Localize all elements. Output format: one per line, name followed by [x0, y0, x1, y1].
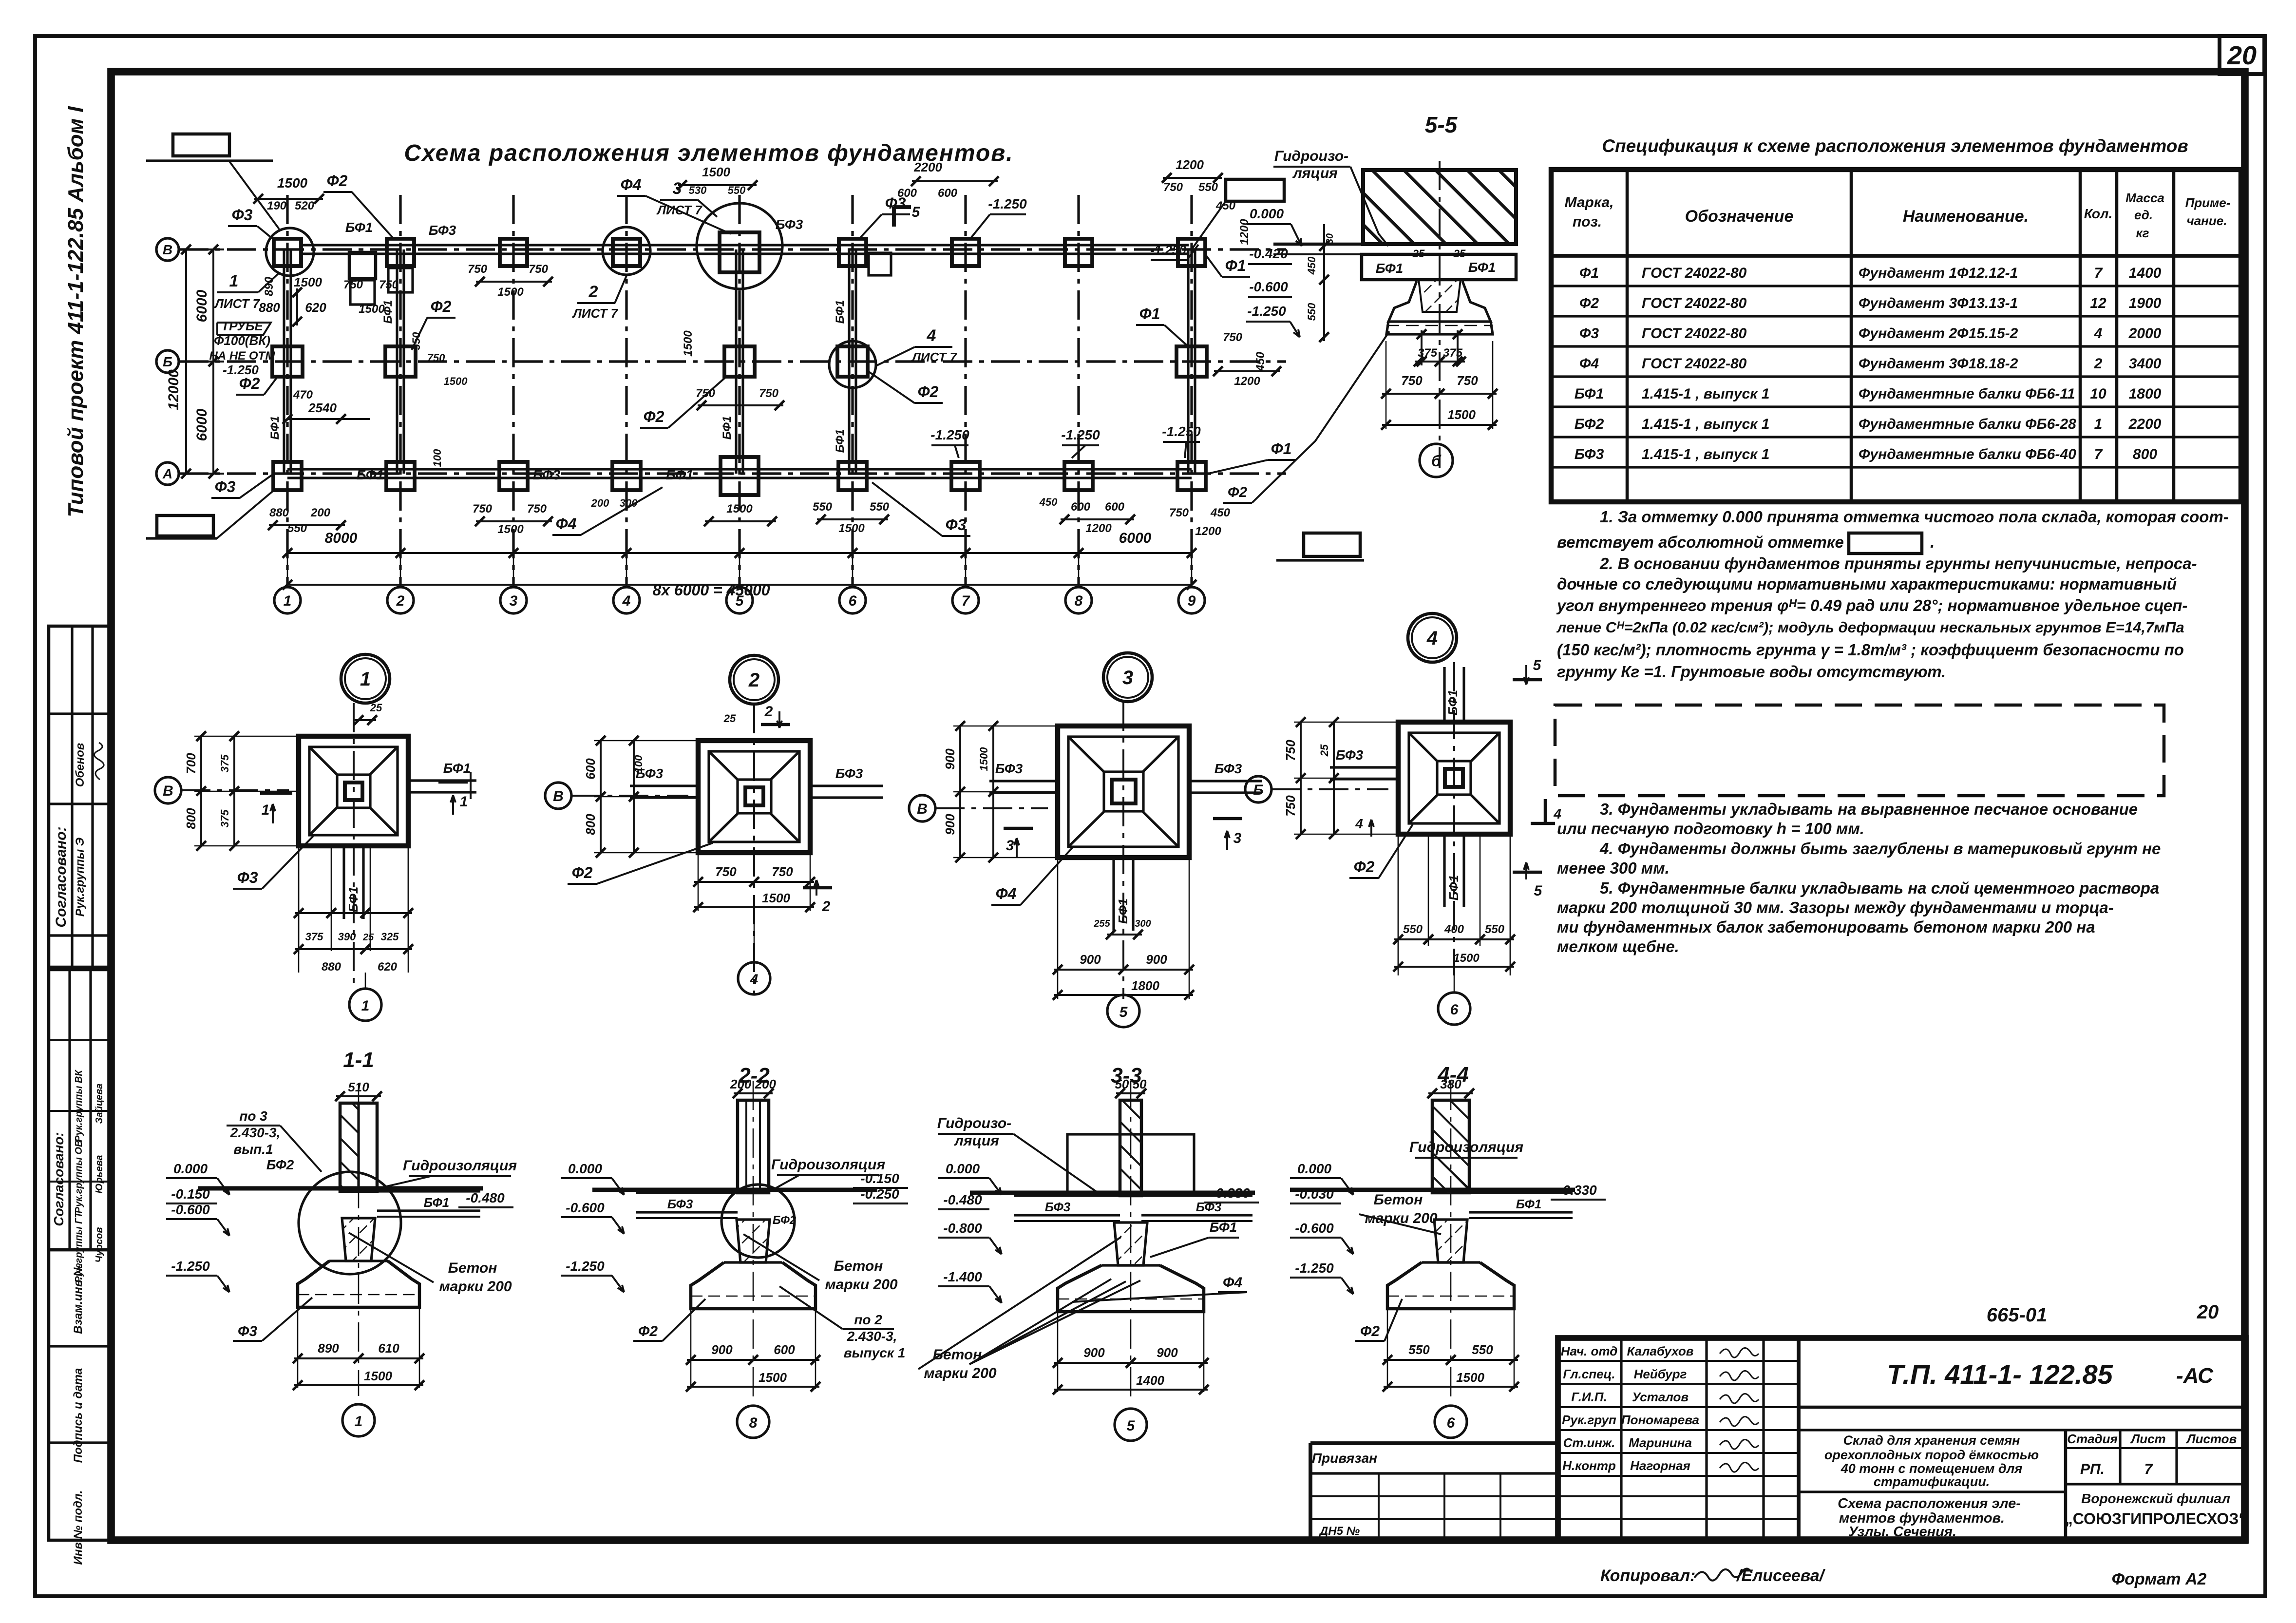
svg-text:Ф1: Ф1: [1579, 265, 1599, 281]
svg-text:ЛИСТ 7: ЛИСТ 7: [572, 306, 618, 321]
svg-text:БФ3: БФ3: [1045, 1200, 1071, 1214]
svg-text:530: 530: [689, 184, 707, 196]
svg-text:Листов: Листов: [2186, 1432, 2237, 1446]
detail 2 callout circle: [730, 655, 778, 704]
svg-text:Стадия: Стадия: [2067, 1432, 2118, 1446]
svg-text:1500: 1500: [838, 522, 865, 535]
svg-text:ляция: ляция: [953, 1133, 999, 1149]
svg-text:Нач. отд: Нач. отд: [1561, 1344, 1618, 1358]
detail 1 pyramid top square: [337, 775, 370, 808]
svg-text:1500: 1500: [444, 375, 468, 387]
svg-text:300: 300: [620, 497, 638, 509]
svg-text:Маринина: Маринина: [1629, 1435, 1692, 1450]
svg-text:620: 620: [378, 960, 398, 974]
svg-text:БФ1: БФ1: [345, 220, 373, 235]
svg-text:375: 375: [305, 931, 323, 943]
svg-text:750: 750: [1223, 331, 1243, 344]
svg-text:6000: 6000: [194, 408, 210, 441]
detail 3 callout circle: [1103, 653, 1152, 702]
svg-text:3: 3: [1233, 830, 1242, 846]
svg-text:325: 325: [381, 931, 399, 943]
svg-text:Согласовано:: Согласовано:: [51, 1132, 66, 1226]
5-5 floor lines: [1273, 243, 1516, 246]
svg-text:610: 610: [378, 1341, 399, 1356]
svg-text:-0.600: -0.600: [566, 1200, 605, 1215]
svg-text:БФ1: БФ1: [1516, 1197, 1542, 1211]
title block left strip Привязан: [1310, 1441, 1558, 1445]
detail 2 vertical axis: [753, 704, 755, 994]
svg-text:4: 4: [1553, 806, 1561, 821]
svg-text:Юрьева: Юрьева: [94, 1155, 105, 1194]
foundation squares row Б: [272, 346, 303, 377]
svg-text:Ф2: Ф2: [644, 408, 664, 425]
svg-text:БФ3: БФ3: [1214, 761, 1242, 776]
svg-text:Гидроизоляция: Гидроизоляция: [403, 1158, 517, 1174]
detail 3 beam stub bottom: [1112, 858, 1115, 931]
svg-text:750: 750: [1169, 506, 1189, 519]
svg-text:25: 25: [723, 712, 736, 725]
svg-text:1500: 1500: [682, 330, 695, 357]
svg-text:900: 900: [943, 748, 957, 770]
svg-text:4: 4: [2094, 325, 2103, 342]
svg-text:1500: 1500: [364, 1369, 392, 1383]
svg-text:В: В: [163, 242, 172, 257]
svg-text:620: 620: [305, 300, 326, 315]
svg-text:БФ2: БФ2: [773, 1214, 797, 1227]
svg-text:900: 900: [1157, 1345, 1178, 1360]
svg-text:750: 750: [696, 387, 716, 400]
svg-text:по 2: по 2: [854, 1312, 882, 1327]
svg-text:2.430-3,: 2.430-3,: [230, 1125, 281, 1140]
svg-text:25: 25: [1412, 248, 1425, 260]
svg-text:1500: 1500: [702, 165, 730, 179]
svg-text:25: 25: [362, 932, 374, 943]
svg-text:750: 750: [1457, 373, 1478, 388]
section 2-2 callout circle: [721, 1184, 795, 1258]
svg-text:1.415-1 , выпуск 1: 1.415-1 , выпуск 1: [1642, 416, 1769, 432]
svg-text:/Елисеева/: /Елисеева/: [1736, 1566, 1826, 1585]
svg-text:марки 200: марки 200: [439, 1279, 512, 1295]
svg-text:БФ3: БФ3: [776, 217, 803, 232]
svg-text:1200: 1200: [1195, 525, 1221, 538]
svg-text:Пономарева: Пономарева: [1621, 1413, 1699, 1427]
section 1-1 callout circle: [299, 1172, 401, 1274]
svg-text:ДН5 №: ДН5 №: [1319, 1525, 1360, 1538]
svg-text:Ф4: Ф4: [556, 515, 577, 533]
detail 4 foundation inner ring: [1409, 733, 1499, 823]
svg-text:Схема расположения эле-: Схема расположения эле-: [1838, 1496, 2021, 1511]
svg-text:-1.250: -1.250: [223, 363, 259, 377]
svg-text:БФ1: БФ1: [721, 416, 734, 439]
svg-text:Узлы. Сечения.: Узлы. Сечения.: [1848, 1524, 1956, 1540]
svg-text:Ф2: Ф2: [1228, 484, 1247, 500]
svg-text:6: 6: [849, 593, 857, 609]
section 2-2 beams: [636, 1191, 738, 1194]
svg-text:550: 550: [1485, 923, 1505, 936]
svg-text:1500: 1500: [759, 1370, 787, 1385]
svg-text:880: 880: [259, 300, 280, 315]
svg-text:Гидроизо-: Гидроизо-: [1274, 148, 1348, 164]
svg-text:ТРУБЕ: ТРУБЕ: [221, 319, 263, 333]
stamp box right of plan middle: [1304, 533, 1360, 556]
svg-text:400: 400: [1444, 923, 1464, 936]
svg-text:Ф1: Ф1: [1271, 440, 1292, 458]
svg-text:2540: 2540: [308, 401, 337, 415]
svg-text:Кол.: Кол.: [2084, 206, 2112, 221]
detail 4 beam БФ to left: [1330, 766, 1398, 768]
svg-text:390: 390: [338, 931, 356, 943]
svg-text:выпуск 1: выпуск 1: [844, 1345, 906, 1360]
svg-text:1800: 1800: [1131, 978, 1159, 993]
svg-text:Г.И.П.: Г.И.П.: [1571, 1390, 1607, 1404]
svg-text:750: 750: [772, 864, 793, 879]
svg-text:375: 375: [1418, 346, 1438, 360]
section 3-3 column top dim: [1116, 1092, 1145, 1094]
svg-text:30: 30: [1325, 233, 1335, 244]
svg-text:800: 800: [184, 808, 198, 829]
svg-text:ветствует абсолютной отметке: ветствует абсолютной отметке: [1557, 533, 1844, 551]
svg-text:1200: 1200: [1234, 375, 1260, 388]
detail 4 corner diagonals: [1409, 733, 1437, 761]
svg-text:600: 600: [938, 187, 958, 200]
svg-text:1-1: 1-1: [343, 1048, 374, 1072]
svg-text:6: 6: [1447, 1415, 1455, 1431]
svg-text:Гидроизо-: Гидроизо-: [937, 1115, 1011, 1131]
svg-text:БФ1: БФ1: [1116, 898, 1130, 924]
axis circle А: [156, 462, 179, 485]
section 3-3 column: [1120, 1100, 1141, 1196]
detail 2 beam БФ to left: [630, 784, 698, 787]
svg-text:Ф4: Ф4: [1579, 356, 1599, 372]
svg-text:-0.250: -0.250: [860, 1186, 899, 1202]
svg-text:В: В: [917, 801, 928, 817]
svg-text:600: 600: [1071, 500, 1091, 514]
svg-text:БФ1: БФ1: [1210, 1220, 1237, 1235]
svg-text:(150 кгс/м²); плотность грунта: (150 кгс/м²); плотность грунта γ = 1.8т/…: [1557, 641, 2184, 659]
svg-text:450: 450: [1306, 256, 1318, 275]
section 4-4 hydro insulation line: [1290, 1187, 1575, 1192]
section mark 5 near В5: [892, 207, 896, 227]
svg-text:Ф3: Ф3: [215, 478, 236, 496]
svg-text:1200: 1200: [1238, 219, 1251, 245]
svg-text:ми фундаментных балок забетони: ми фундаментных балок забетонировать бет…: [1557, 918, 2095, 936]
callout circle detail 3 at В5: [697, 203, 782, 289]
detail 1 bottom dimension lines: [298, 846, 300, 973]
5-5 bottom dims 375 375: [1421, 330, 1423, 365]
bottom chain witness lines: [287, 536, 288, 587]
title block right columns Стадия Лист Листов: [2064, 1430, 2068, 1540]
svg-text:мелком щебне.: мелком щебне.: [1557, 937, 1679, 955]
svg-text:б: б: [1431, 452, 1442, 470]
svg-text:марки 200: марки 200: [825, 1277, 897, 1293]
svg-text:4: 4: [1426, 628, 1438, 649]
svg-text:Т.П. 411-1- 122.85: Т.П. 411-1- 122.85: [1887, 1359, 2113, 1390]
svg-text:В: В: [553, 788, 564, 804]
svg-text:БФ1: БФ1: [1468, 260, 1496, 275]
svg-text:10: 10: [2090, 386, 2106, 402]
svg-text:550: 550: [1306, 303, 1318, 321]
svg-text:Склад для хранения семян: Склад для хранения семян: [1843, 1433, 2020, 1448]
svg-text:9: 9: [1188, 593, 1196, 609]
detail 3 pyramid top square: [1104, 772, 1143, 811]
svg-text:Нейбург: Нейбург: [1634, 1367, 1687, 1381]
svg-text:БФ1: БФ1: [443, 761, 471, 776]
axis row Б line: [179, 360, 1286, 363]
svg-text:1: 1: [284, 593, 292, 609]
svg-text:БФ3: БФ3: [1575, 446, 1604, 462]
svg-text:750: 750: [473, 502, 493, 516]
svg-text:4: 4: [927, 326, 936, 345]
axis circle Б: [156, 350, 179, 373]
callout circle at В4: [603, 227, 650, 275]
svg-text:550: 550: [1472, 1342, 1493, 1357]
svg-text:БФ1: БФ1: [268, 416, 282, 439]
svg-text:2200: 2200: [2128, 416, 2162, 432]
svg-text:ГОСТ 24022-80: ГОСТ 24022-80: [1642, 265, 1747, 281]
svg-text:600: 600: [774, 1342, 795, 1357]
svg-text:890: 890: [263, 276, 276, 296]
left margin lower approval table: [49, 970, 111, 1250]
detail 4 right section mark 4: [1544, 799, 1547, 823]
svg-text:„СОЮЗГИПРОЛЕСХОЗ“: „СОЮЗГИПРОЛЕСХОЗ“: [2065, 1510, 2247, 1528]
svg-text:450: 450: [1039, 496, 1058, 508]
svg-text:255: 255: [1093, 918, 1110, 929]
axis row В line: [179, 248, 1286, 250]
svg-text:550: 550: [813, 500, 833, 514]
stamp box right of plan top: [1226, 179, 1284, 201]
svg-text:1500: 1500: [726, 502, 753, 516]
svg-text:Копировал:: Копировал:: [1600, 1566, 1695, 1585]
svg-text:Фундамент 3Ф13.13-1: Фундамент 3Ф13.13-1: [1859, 295, 2018, 311]
svg-text:-0.600: -0.600: [171, 1202, 210, 1217]
detail 1 foundation inner ring: [309, 747, 398, 835]
svg-text:ГОСТ 24022-80: ГОСТ 24022-80: [1642, 325, 1747, 342]
svg-text:Б: Б: [1253, 782, 1263, 798]
svg-text:2.430-3,: 2.430-3,: [847, 1329, 897, 1344]
svg-text:880: 880: [322, 960, 342, 974]
extra foundation below В2: [388, 268, 413, 292]
section 4-4 column: [1432, 1100, 1469, 1193]
svg-text:Обенов: Обенов: [74, 743, 87, 787]
svg-text:350: 350: [410, 332, 422, 350]
5-5 bottom dims 750 750: [1382, 393, 1443, 395]
svg-text:1400: 1400: [2129, 265, 2162, 281]
svg-text:2: 2: [748, 669, 759, 691]
svg-text:Ф2: Ф2: [918, 383, 939, 401]
svg-text:750: 750: [527, 502, 547, 516]
svg-text:Чурсов: Чурсов: [94, 1227, 105, 1263]
detail 3 foundation plan outer square: [1058, 726, 1189, 858]
detail 3 corner diagonals: [1068, 737, 1104, 772]
detail 1 callout circle: [341, 654, 390, 703]
5-5 cup dashed midline: [1386, 325, 1493, 326]
svg-text:12000: 12000: [166, 369, 182, 410]
svg-text:БФ3: БФ3: [533, 467, 561, 482]
svg-text:-1.250: -1.250: [1162, 424, 1201, 439]
svg-text:вып.1: вып.1: [233, 1142, 273, 1157]
detail 4 left dimension chains: [1300, 722, 1302, 834]
detail 4 pyramid top square: [1437, 761, 1471, 795]
section 2-2 column top dim: [734, 1092, 773, 1094]
svg-text:450: 450: [1210, 506, 1231, 519]
svg-text:Фундаментные балки ФБ6-40: Фундаментные балки ФБ6-40: [1859, 446, 2076, 462]
section 4-4 axis: [1450, 1081, 1452, 1397]
svg-text:Гидроизоляция: Гидроизоляция: [771, 1157, 885, 1173]
svg-text:Инв.№ подл.: Инв.№ подл.: [72, 1490, 85, 1565]
svg-text:ЛИСТ 7: ЛИСТ 7: [911, 350, 957, 364]
svg-text:Ф2: Ф2: [1360, 1323, 1380, 1339]
svg-text:Фундамент 2Ф15.15-2: Фундамент 2Ф15.15-2: [1859, 325, 2018, 342]
title block signature columns: [1620, 1338, 1622, 1540]
svg-text:12: 12: [2090, 295, 2106, 311]
svg-text:3400: 3400: [2129, 356, 2162, 372]
5-5 foundation pedestal hatched: [1419, 280, 1461, 312]
svg-text:-0.480: -0.480: [466, 1190, 505, 1205]
section 2-2 pedestal: [737, 1220, 770, 1262]
section 2-2 hydro insulation line: [592, 1187, 877, 1192]
svg-text:Фундаментные балки ФБ6-28: Фундаментные балки ФБ6-28: [1859, 416, 2076, 432]
svg-text:2000: 2000: [2128, 325, 2162, 342]
left dimension chain 12000: [185, 249, 187, 474]
svg-text:Рук.груп: Рук.груп: [1562, 1413, 1616, 1427]
detail 4 bottom dimension lines: [1398, 834, 1399, 975]
svg-text:750: 750: [343, 278, 363, 291]
svg-text:БФ1: БФ1: [1376, 261, 1404, 276]
svg-text:поз.: поз.: [1573, 214, 1602, 230]
svg-text:БФ2: БФ2: [266, 1157, 294, 1172]
beam БФ3 line along row В: [301, 244, 1189, 246]
detail 3 bottom axis circle 5: [1107, 995, 1139, 1027]
svg-text:ЛИСТ 7: ЛИСТ 7: [214, 296, 260, 311]
detail 1 beam stub bottom: [342, 846, 345, 919]
detail 2 foundation inner ring: [709, 751, 799, 842]
svg-text:300: 300: [1135, 918, 1151, 929]
svg-text:900: 900: [1083, 1345, 1105, 1360]
svg-text:ед.: ед.: [2134, 208, 2153, 222]
svg-text:-1.250: -1.250: [1150, 243, 1186, 257]
svg-text:Наименование.: Наименование.: [1903, 207, 2029, 226]
section 1-1 bottom circle: [342, 1404, 375, 1436]
svg-text:1: 1: [262, 802, 270, 818]
svg-text:1: 1: [355, 1413, 363, 1430]
svg-text:750: 750: [1283, 795, 1298, 817]
svg-text:БФ3: БФ3: [429, 223, 456, 238]
svg-text:750: 750: [379, 278, 399, 291]
svg-text:БФ1: БФ1: [346, 887, 361, 913]
detail 2 column glass square: [745, 787, 763, 805]
svg-text:Усталов: Усталов: [1632, 1390, 1689, 1404]
svg-text:0.000: 0.000: [173, 1161, 208, 1176]
detail 4 bottom dim chains: [1398, 834, 1399, 971]
left margin inventory boxes: [49, 1250, 111, 1540]
svg-text:БФ1: БФ1: [424, 1195, 450, 1210]
svg-text:1: 1: [361, 998, 370, 1014]
svg-text:-0.480: -0.480: [943, 1192, 982, 1207]
5-5 hatched wall block: [1363, 170, 1516, 244]
svg-text:Подпись и дата: Подпись и дата: [72, 1368, 85, 1463]
svg-text:375: 375: [219, 754, 231, 772]
title block doc designation: [1799, 1406, 2246, 1409]
svg-text:1200: 1200: [1085, 522, 1112, 535]
svg-text:1500: 1500: [1447, 407, 1476, 422]
svg-text:1. За отметку 0.000 принята от: 1. За отметку 0.000 принята отметка чист…: [1600, 508, 2229, 526]
svg-text:Согласовано:: Согласовано:: [53, 826, 69, 927]
svg-text:40 тонн с помещением для: 40 тонн с помещением для: [1841, 1461, 2023, 1476]
svg-text:БФ1: БФ1: [1446, 875, 1461, 901]
detail 1 bottom axis circle 1: [349, 989, 381, 1021]
svg-text:Бетон: Бетон: [834, 1258, 883, 1274]
specification table header row: [1551, 254, 2241, 258]
svg-text:ГОСТ 24022-80: ГОСТ 24022-80: [1642, 295, 1747, 311]
svg-text:БФ1: БФ1: [666, 467, 694, 482]
svg-text:2: 2: [764, 704, 773, 720]
svg-text:Формат А2: Формат А2: [2112, 1570, 2207, 1588]
detail 3 foundation inner ring: [1068, 737, 1178, 847]
detail 1 foundation plan outer square: [299, 736, 408, 846]
svg-text:550: 550: [287, 522, 307, 535]
detail 2 bottom section mark: [803, 886, 832, 890]
svg-text:2: 2: [822, 898, 831, 915]
svg-text:Типовой проект 411-1-122.85: Типовой проект 411-1-122.85 Альбом I: [64, 106, 88, 517]
svg-text:.: .: [1930, 533, 1935, 551]
svg-text:угол внутреннего трения φᴴ= 0: угол внутреннего трения φᴴ= 0.49 рад или…: [1556, 596, 2187, 614]
svg-text:Обозначение: Обозначение: [1685, 207, 1794, 226]
svg-text:-1.250: -1.250: [171, 1259, 210, 1274]
svg-text:Ф4: Ф4: [996, 885, 1017, 902]
svg-text:Ф2: Ф2: [1354, 858, 1375, 876]
svg-text:грунту Кг =1. Грунтовые воды: грунту Кг =1. Грунтовые воды отсутствуют…: [1557, 663, 1946, 681]
section 4-4 column top dim: [1428, 1092, 1473, 1094]
svg-text:дочные со следующими нормативн: дочные со следующими нормативными характ…: [1557, 575, 2177, 593]
svg-text:Ф3: Ф3: [238, 1323, 257, 1339]
detail 3 vertical axis: [1122, 702, 1124, 999]
dashed placeholder box in notes: [1555, 705, 2164, 796]
5-5 center axis: [1439, 161, 1441, 468]
svg-text:5. Фундаментные балки укладыва: 5. Фундаментные балки укладывать на слой…: [1600, 879, 2159, 897]
svg-text:550: 550: [1198, 181, 1218, 194]
svg-text:1500: 1500: [359, 303, 385, 316]
svg-text:6: 6: [1450, 1002, 1459, 1018]
svg-text:1.415-1 , выпуск 1: 1.415-1 , выпуск 1: [1642, 386, 1769, 402]
detail 4 bottom axis circle 6: [1438, 993, 1470, 1025]
svg-text:1: 1: [360, 668, 371, 690]
section 3-3 foundation cup: [1058, 1265, 1204, 1312]
svg-text:5: 5: [912, 204, 921, 220]
svg-text:25: 25: [1453, 248, 1466, 260]
svg-text:375: 375: [1443, 346, 1463, 360]
svg-text:750: 750: [427, 352, 445, 364]
section 2-2 foundation cup: [691, 1262, 816, 1309]
svg-text:1500: 1500: [1456, 1370, 1484, 1385]
detail 1 bottom dim chains: [298, 846, 300, 954]
svg-text:750: 750: [468, 263, 488, 276]
svg-text:665-01: 665-01: [1987, 1304, 2048, 1326]
section 2-2 axis: [753, 1081, 754, 1397]
detail 3 column glass square: [1112, 780, 1136, 803]
svg-text:Фундамент 1Ф12.12-1: Фундамент 1Ф12.12-1: [1859, 265, 2018, 281]
vertical foundation beams БФ1 on columns 1 2 5 6 9: [283, 249, 285, 474]
svg-text:4. Фундаменты должны быть загл: 4. Фундаменты должны быть заглублены в м…: [1599, 840, 2161, 858]
svg-text:8000: 8000: [325, 530, 358, 546]
detail 1 vertical axis: [353, 703, 355, 987]
svg-text:900: 900: [1146, 952, 1167, 967]
detail 1 section marks 1-1: [260, 792, 292, 795]
svg-text:-1.400: -1.400: [943, 1269, 982, 1284]
5-5 bottom dim 1500: [1382, 424, 1497, 426]
svg-text:Ф2: Ф2: [638, 1323, 658, 1339]
specification table rows: [1551, 285, 2241, 287]
svg-text:1500: 1500: [978, 747, 990, 771]
